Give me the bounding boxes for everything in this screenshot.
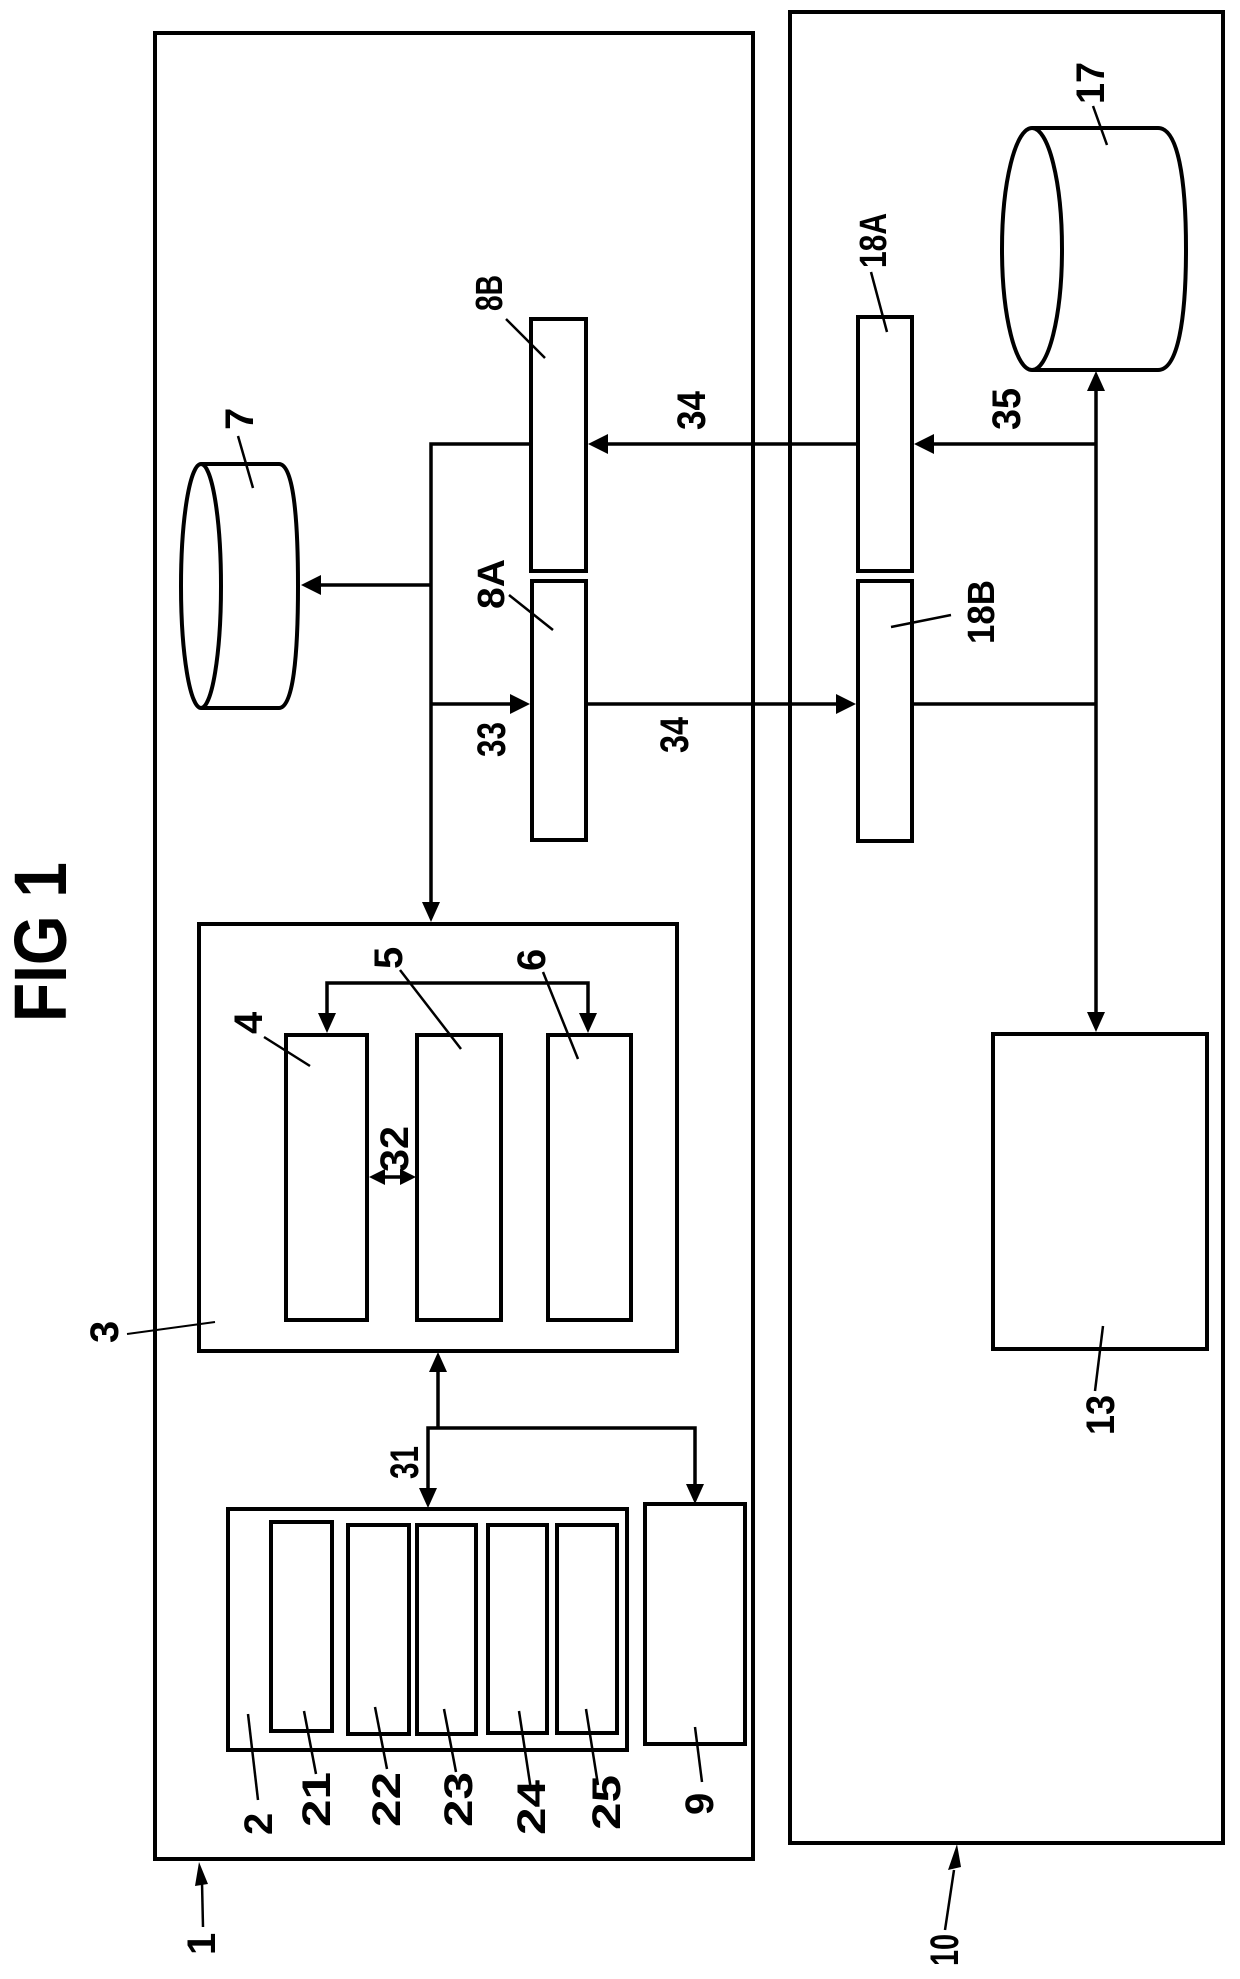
label 24 — [510, 1711, 554, 1835]
svg-text:34: 34 — [653, 716, 697, 753]
title FIG 1 — [0, 862, 82, 1022]
arrow 34 (bottom) from box 8A into box 18B — [586, 694, 856, 714]
svg-text:31: 31 — [383, 1446, 427, 1479]
svg-text:32: 32 — [373, 1126, 417, 1172]
label 18A — [853, 213, 895, 332]
svg-text:34: 34 — [670, 390, 714, 430]
svg-text:9: 9 — [678, 1793, 722, 1815]
box 18B — [858, 581, 912, 841]
label 6 — [510, 949, 578, 1059]
box 8B — [531, 319, 586, 571]
label 31 — [383, 1446, 427, 1479]
cylinder 17 — [1002, 128, 1186, 370]
label 3 — [83, 1321, 215, 1343]
connector inside box 3 with arrows into boxes 4 and 6 — [318, 983, 597, 1033]
label 34 top — [670, 390, 714, 430]
box 1 (left outer system box) — [155, 33, 753, 1859]
label 17 — [1069, 62, 1113, 145]
svg-text:17: 17 — [1069, 62, 1113, 104]
label 13 — [1079, 1326, 1123, 1435]
svg-text:18A: 18A — [853, 213, 895, 268]
box 10 (right outer system box) — [790, 12, 1223, 1843]
arrow 34 (top) from box 18A into box 8B — [588, 434, 858, 454]
cylinder 7 — [181, 464, 298, 708]
svg-text:4: 4 — [227, 1011, 271, 1034]
label 8A — [471, 559, 553, 630]
label 4 — [227, 1011, 310, 1066]
label 21 — [295, 1711, 339, 1827]
trunk wire with arrow up into cylinder 17 and arrow down into box 13 — [1087, 371, 1105, 1032]
label 32 — [373, 1126, 417, 1172]
box 21 — [271, 1522, 332, 1731]
svg-text:2: 2 — [237, 1813, 281, 1835]
svg-text:6: 6 — [510, 949, 554, 971]
label 1 with arrow to box 1 — [180, 1862, 224, 1955]
svg-text:33: 33 — [470, 722, 514, 757]
svg-text:3: 3 — [83, 1321, 127, 1343]
svg-text:7: 7 — [218, 408, 262, 430]
wire from box 18B right to trunk — [912, 702, 1096, 706]
branch wire to box 2 and box 9 — [419, 1428, 704, 1508]
label 18B — [891, 580, 1003, 644]
box 3 — [199, 924, 677, 1351]
arrow 33 into box 8A — [431, 694, 530, 714]
double arrow 32 between box 4 and box 5 — [369, 1169, 416, 1185]
svg-text:24: 24 — [510, 1779, 554, 1835]
label 7 — [218, 408, 262, 488]
box 18A — [858, 317, 912, 571]
box 8A — [532, 581, 586, 840]
arrow 35 from trunk into box 18A — [914, 434, 1096, 454]
box 23 — [417, 1525, 476, 1734]
svg-text:21: 21 — [295, 1772, 339, 1827]
label 33 — [470, 722, 514, 757]
box 22 — [348, 1525, 409, 1734]
svg-text:23: 23 — [437, 1772, 481, 1827]
label 5 — [367, 947, 461, 1049]
box 6 — [548, 1035, 631, 1320]
box 4 — [286, 1035, 367, 1320]
svg-text:22: 22 — [365, 1772, 409, 1827]
label 2 — [237, 1714, 281, 1835]
svg-text:10: 10 — [923, 1934, 967, 1966]
label 23 — [437, 1709, 481, 1827]
box 2 — [228, 1509, 627, 1750]
svg-text:13: 13 — [1079, 1395, 1123, 1435]
arrow into cylinder 7 — [301, 575, 431, 595]
svg-text:8A: 8A — [471, 559, 513, 609]
wire from box 8B left to vertical trunk and arrow into box 3 — [422, 444, 531, 922]
box 9 — [645, 1504, 745, 1744]
label 8B — [469, 275, 545, 358]
box 25 — [557, 1525, 617, 1733]
label 35 — [985, 388, 1029, 430]
box 24 — [488, 1525, 547, 1733]
svg-text:FIG 1: FIG 1 — [0, 862, 82, 1022]
label 22 — [365, 1707, 409, 1827]
label 25 — [585, 1709, 629, 1830]
label 10 with arrow to box 10 — [923, 1844, 967, 1966]
svg-text:18B: 18B — [961, 580, 1003, 644]
svg-text:5: 5 — [367, 947, 411, 969]
svg-text:25: 25 — [585, 1775, 629, 1830]
box 13 — [993, 1034, 1207, 1349]
svg-text:8B: 8B — [469, 275, 511, 311]
box 5 — [417, 1035, 501, 1320]
svg-text:1: 1 — [180, 1933, 224, 1955]
arrow 31 trunk up into box 3 — [429, 1352, 447, 1428]
svg-text:35: 35 — [985, 388, 1029, 430]
label 9 — [678, 1727, 722, 1815]
label 34 bottom — [653, 716, 697, 753]
